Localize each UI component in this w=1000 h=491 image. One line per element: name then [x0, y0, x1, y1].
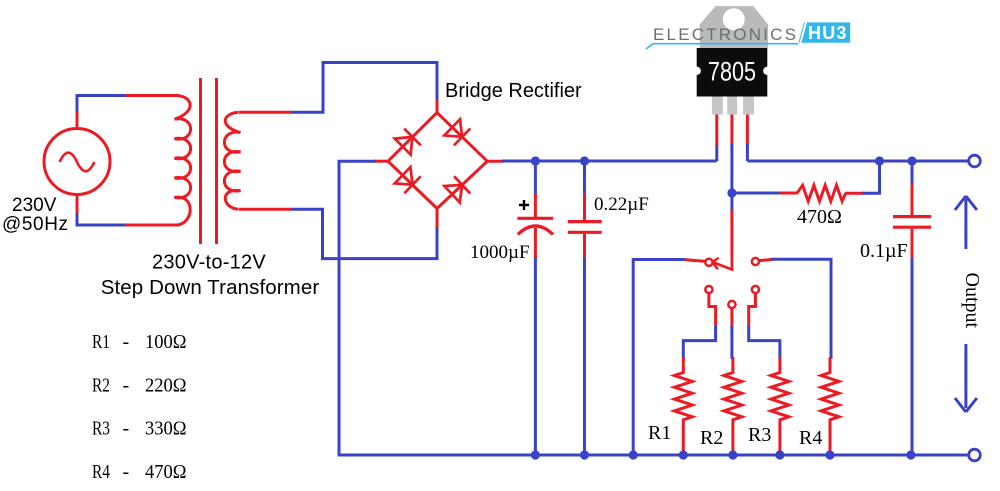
node: ground bus dot sw	[629, 450, 638, 459]
svg-text:HU3: HU3	[808, 23, 848, 43]
capacitor C3 0.1uF branch	[911, 161, 914, 186]
resistor R5 470ohm	[797, 185, 846, 201]
wire: contact1 to ground bus	[683, 260, 706, 262]
wire: contact2 to R1	[709, 293, 716, 328]
node: +bus dot at 1000uF tap	[531, 156, 540, 165]
svg-text:R4-470Ω: R4-470Ω	[92, 461, 187, 483]
regulator U1 7805 pins	[712, 97, 723, 115]
capacitor C2 plates	[568, 222, 602, 233]
node: +bus dot at 0.22uF tap	[580, 156, 589, 165]
svg-text:R2: R2	[700, 427, 723, 449]
resistor R4	[821, 357, 839, 455]
diode D2 (top to right)	[444, 119, 470, 146]
output arrow down	[964, 344, 967, 408]
svg-text:ELECTRONICS: ELECTRONICS	[653, 25, 798, 44]
node: ground bus dot R3	[775, 450, 784, 459]
diode D1 (left to top)	[394, 129, 420, 155]
wire: contact4 to R3	[749, 293, 756, 328]
transformer T1 core	[201, 78, 217, 244]
svg-text:R1-100Ω: R1-100Ω	[92, 331, 187, 353]
transformer T1 secondary coil	[224, 112, 240, 209]
output terminal top	[969, 155, 981, 167]
switch SW1 contact 4 (to R3)	[752, 286, 759, 293]
svg-text:R3-330Ω: R3-330Ω	[92, 418, 187, 440]
wire: bridge right corner to +bus	[487, 160, 504, 163]
regulator U1 7805 side notches	[693, 67, 701, 75]
capacitor C1 plus sign	[519, 200, 529, 210]
svg-text:1000µF: 1000µF	[470, 242, 530, 263]
node: ground bus dot C1	[531, 450, 540, 459]
wire: secondary top to bridge top	[239, 111, 292, 114]
wire: secondary bottom to bridge bottom	[239, 208, 292, 211]
AC source V1	[44, 129, 110, 195]
capacitor C3 plates	[893, 217, 931, 228]
regulator U1 7805 body	[697, 48, 768, 97]
svg-text:R2-220Ω: R2-220Ω	[92, 374, 187, 396]
node: ground bus dot C2	[580, 450, 589, 459]
regulator U1 7805 tab hole	[723, 8, 745, 30]
svg-text:@50Hz: @50Hz	[2, 214, 69, 235]
regulator U1 7805 ground pin wire (pin2)	[730, 112, 733, 146]
regulator U1 7805 package tab	[700, 6, 768, 48]
switch SW1 pole wire	[730, 193, 733, 212]
node: ground bus dot 0.1uF	[906, 450, 915, 459]
diode D4 (bottom to right)	[444, 176, 470, 203]
node: ground bus dot R2	[728, 450, 737, 459]
diode D3 (left to bottom)	[394, 167, 420, 194]
node: ground bus dot R4	[825, 450, 834, 459]
resistor R1	[674, 357, 692, 455]
svg-text:7805: 7805	[708, 57, 756, 87]
wire: contact5 to R4	[759, 259, 774, 260]
switch SW1 contact 3 (to R2)	[728, 301, 735, 308]
capacitor C1 plates	[517, 217, 553, 220]
node: output bus dot at 0.1uF	[907, 156, 916, 165]
resistor R2	[724, 357, 742, 455]
wire: bridge left corner to ground bus	[374, 160, 388, 163]
svg-text:Output: Output	[961, 273, 983, 329]
transformer T1 primary coil	[175, 96, 191, 226]
capacitor C2 0.22uF branch wires	[583, 161, 586, 195]
wire: contact3 to R2	[730, 308, 733, 328]
wire: output bus	[747, 160, 968, 163]
svg-text:0.22µF: 0.22µF	[594, 194, 649, 215]
output arrow up	[964, 199, 967, 249]
output terminal bottom	[969, 449, 981, 461]
node: ground bus dot R1	[679, 450, 688, 459]
switch SW1 contact 1 (direct gnd)	[705, 259, 712, 266]
logo underline	[646, 44, 798, 49]
svg-text:Step Down Transformer: Step Down Transformer	[101, 276, 320, 299]
logo HUB box	[798, 22, 850, 42]
switch SW1 contact 2 (to R1)	[705, 286, 712, 293]
switch SW1 wiper arm with arrow	[713, 255, 732, 270]
svg-text:R1: R1	[648, 422, 671, 444]
wire: source top to transformer primary top	[76, 109, 79, 129]
node: gnd pin junction dot	[727, 188, 736, 197]
regulator U1 7805 input pin wire (pin1)	[715, 144, 718, 161]
wire: gnd pin to 470 ohm resistor	[732, 192, 781, 195]
switch SW1 contact 5 (to R4)	[752, 258, 759, 265]
svg-text:470Ω: 470Ω	[797, 206, 842, 228]
svg-text:230V: 230V	[12, 195, 57, 216]
bridge rectifier BR1 diamond	[388, 113, 487, 209]
node: output bus dot at R5	[875, 156, 884, 165]
resistor R3	[771, 357, 789, 455]
svg-text:R3: R3	[748, 424, 771, 446]
regulator U1 7805 output pin wire (pin3)	[746, 112, 749, 146]
svg-text:R4: R4	[799, 427, 822, 449]
svg-text:0.1µF: 0.1µF	[860, 240, 908, 262]
capacitor C1 1000uF branch wires	[534, 161, 537, 195]
svg-text:Bridge Rectifier: Bridge Rectifier	[445, 80, 582, 102]
wire: source bottom to transformer primary bottom	[76, 195, 79, 216]
wire: 470 ohm right lead up to output bus	[845, 192, 865, 195]
svg-text:230V-to-12V: 230V-to-12V	[152, 252, 266, 274]
